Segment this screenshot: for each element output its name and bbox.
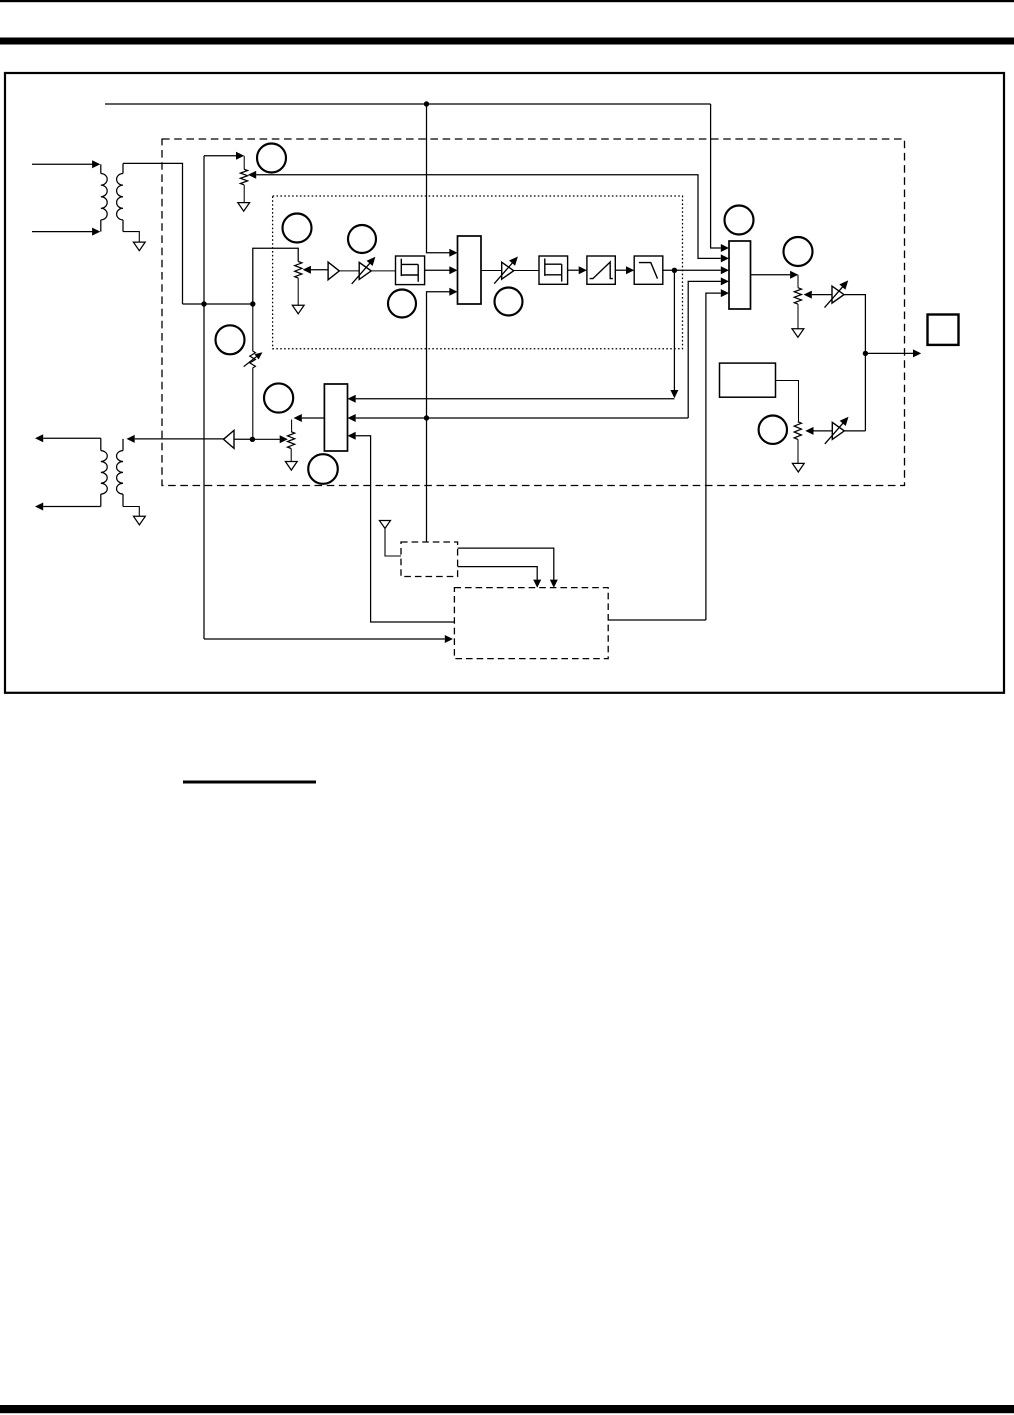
wire top bus: [105, 103, 711, 105]
attenuator AT2: [494, 257, 518, 284]
output port block: [928, 315, 959, 345]
filter block F1: [587, 256, 615, 284]
filter block F2: [634, 256, 663, 284]
circle callout 3: [348, 225, 376, 253]
antenna stub symbol: [379, 521, 401, 557]
ground R1: [238, 203, 250, 212]
summer U2: [729, 241, 751, 309]
attenuator AT4: [825, 417, 849, 444]
potentiometer R5: [794, 422, 801, 464]
wire T1 input 2: [32, 228, 100, 236]
circle callout 2: [283, 214, 312, 243]
wire TX output arrow: [865, 349, 921, 357]
attenuator AT3: [825, 280, 849, 307]
wire limiter1 to summer U1: [425, 266, 458, 274]
wire A1 to attenuator AT1: [339, 270, 359, 272]
wire R3 top feed: [253, 248, 298, 304]
wire T1 secondary to bus: [123, 163, 183, 304]
wire R5 wiper to attenuator AT4: [805, 427, 832, 435]
ground R4: [792, 329, 804, 338]
wire audio to U3 in1: [348, 395, 675, 403]
wire tone feed to U1 in3: [427, 288, 458, 542]
wire tone board out: [608, 619, 706, 621]
wire R3 wiper to amp: [303, 266, 328, 274]
wire mod line into U3 in2: [348, 414, 689, 422]
limiter block 1: [396, 256, 425, 285]
wire mod feed to U2 in4: [688, 277, 729, 418]
limiter block 2: [539, 256, 568, 284]
wire audio split down: [670, 270, 678, 398]
circle callout 9: [759, 416, 787, 444]
ground R5: [792, 463, 804, 472]
node rheostat branch junction: [250, 301, 255, 306]
circle callout 1: [257, 144, 286, 173]
wire T2 output 1: [35, 434, 101, 442]
wire R4 wiper to attenuator AT3: [804, 291, 832, 299]
ground R3: [292, 305, 304, 314]
summer U1: [458, 236, 482, 304]
wire tone into U3 in3: [348, 432, 455, 622]
wire encoder out B: [458, 567, 542, 588]
dotted enclosure (processing chain): [273, 196, 683, 349]
circle callout 10: [264, 383, 293, 412]
transformer T2 primary: [101, 438, 107, 506]
ground T1 secondary: [133, 242, 145, 251]
wire AT4 to output node: [844, 430, 865, 432]
wire A2 input: [234, 438, 252, 440]
wire buffer to T2: [127, 435, 224, 443]
summer U3: [324, 384, 347, 451]
wire tone out to U2 in5: [706, 289, 729, 620]
buffer amp A1: [328, 262, 339, 280]
wire U1 out to attenuator AT2: [481, 270, 502, 272]
circle callout 8: [784, 237, 813, 266]
page top rule: [0, 0, 1014, 2]
circle callout 5: [495, 288, 523, 316]
wire T1 input 1: [32, 160, 100, 168]
caption underline: [183, 781, 316, 784]
header bar: [0, 38, 1014, 45]
node TX output junction: [863, 351, 868, 356]
wire AT3 to output node: [844, 295, 865, 431]
circle callout 4: [388, 290, 416, 318]
rheostat R2 line: [250, 304, 256, 439]
figure frame: [5, 73, 1004, 693]
wire AT2 to limiter 2: [514, 270, 539, 272]
wire AT1 to limiter: [371, 270, 395, 272]
transformer T1 secondary: [117, 163, 140, 242]
node buffer junction: [250, 437, 255, 442]
wire R1 wiper to summer U2 in2: [248, 171, 729, 263]
oscillator block: [720, 363, 776, 397]
ground T2 secondary: [134, 516, 146, 525]
wire T2 output 2: [35, 503, 101, 511]
tone encoder block (dashed): [401, 542, 458, 577]
ground R6: [285, 462, 297, 471]
wire to R6 wiper: [252, 435, 288, 443]
wire limiter2 to filter F1: [568, 266, 587, 274]
node top bus / line A junction: [424, 101, 429, 106]
dashed enclosure (main unit): [162, 139, 905, 486]
wire R1 top feed: [204, 152, 244, 304]
wire node row y304: [183, 303, 253, 305]
node audio split junction: [672, 268, 677, 273]
potentiometer R6: [288, 432, 295, 462]
wire U2 out to R4: [751, 271, 799, 279]
wire bus to U2 in1: [711, 104, 729, 252]
circle callout 7: [725, 206, 754, 235]
rheostat R2 arrow: [244, 352, 263, 366]
buffer amp A2: [224, 430, 235, 448]
transformer T2 secondary: [117, 439, 140, 516]
circle callout 6: [216, 325, 245, 354]
wire F2 out to summer U2 in3: [663, 266, 729, 274]
wire U3 out to R6: [292, 414, 325, 432]
footer bar: [0, 1405, 1014, 1413]
potentiometer R4: [794, 275, 801, 329]
wire bus to U1 in1: [427, 104, 458, 257]
wire F1 to filter F2: [615, 266, 634, 274]
node left feed junction: [201, 301, 206, 306]
potentiometer R1: [240, 156, 247, 203]
tone board block (dashed): [454, 588, 608, 659]
wire left feed to decoder: [204, 304, 453, 643]
transformer T1 primary: [101, 164, 107, 231]
wire oscillator to R5: [776, 381, 799, 422]
potentiometer R3: [295, 262, 302, 306]
attenuator AT1: [352, 257, 376, 284]
wire encoder out A: [458, 548, 558, 588]
circle callout 11: [308, 454, 338, 484]
node tone feed junction: [424, 415, 429, 420]
